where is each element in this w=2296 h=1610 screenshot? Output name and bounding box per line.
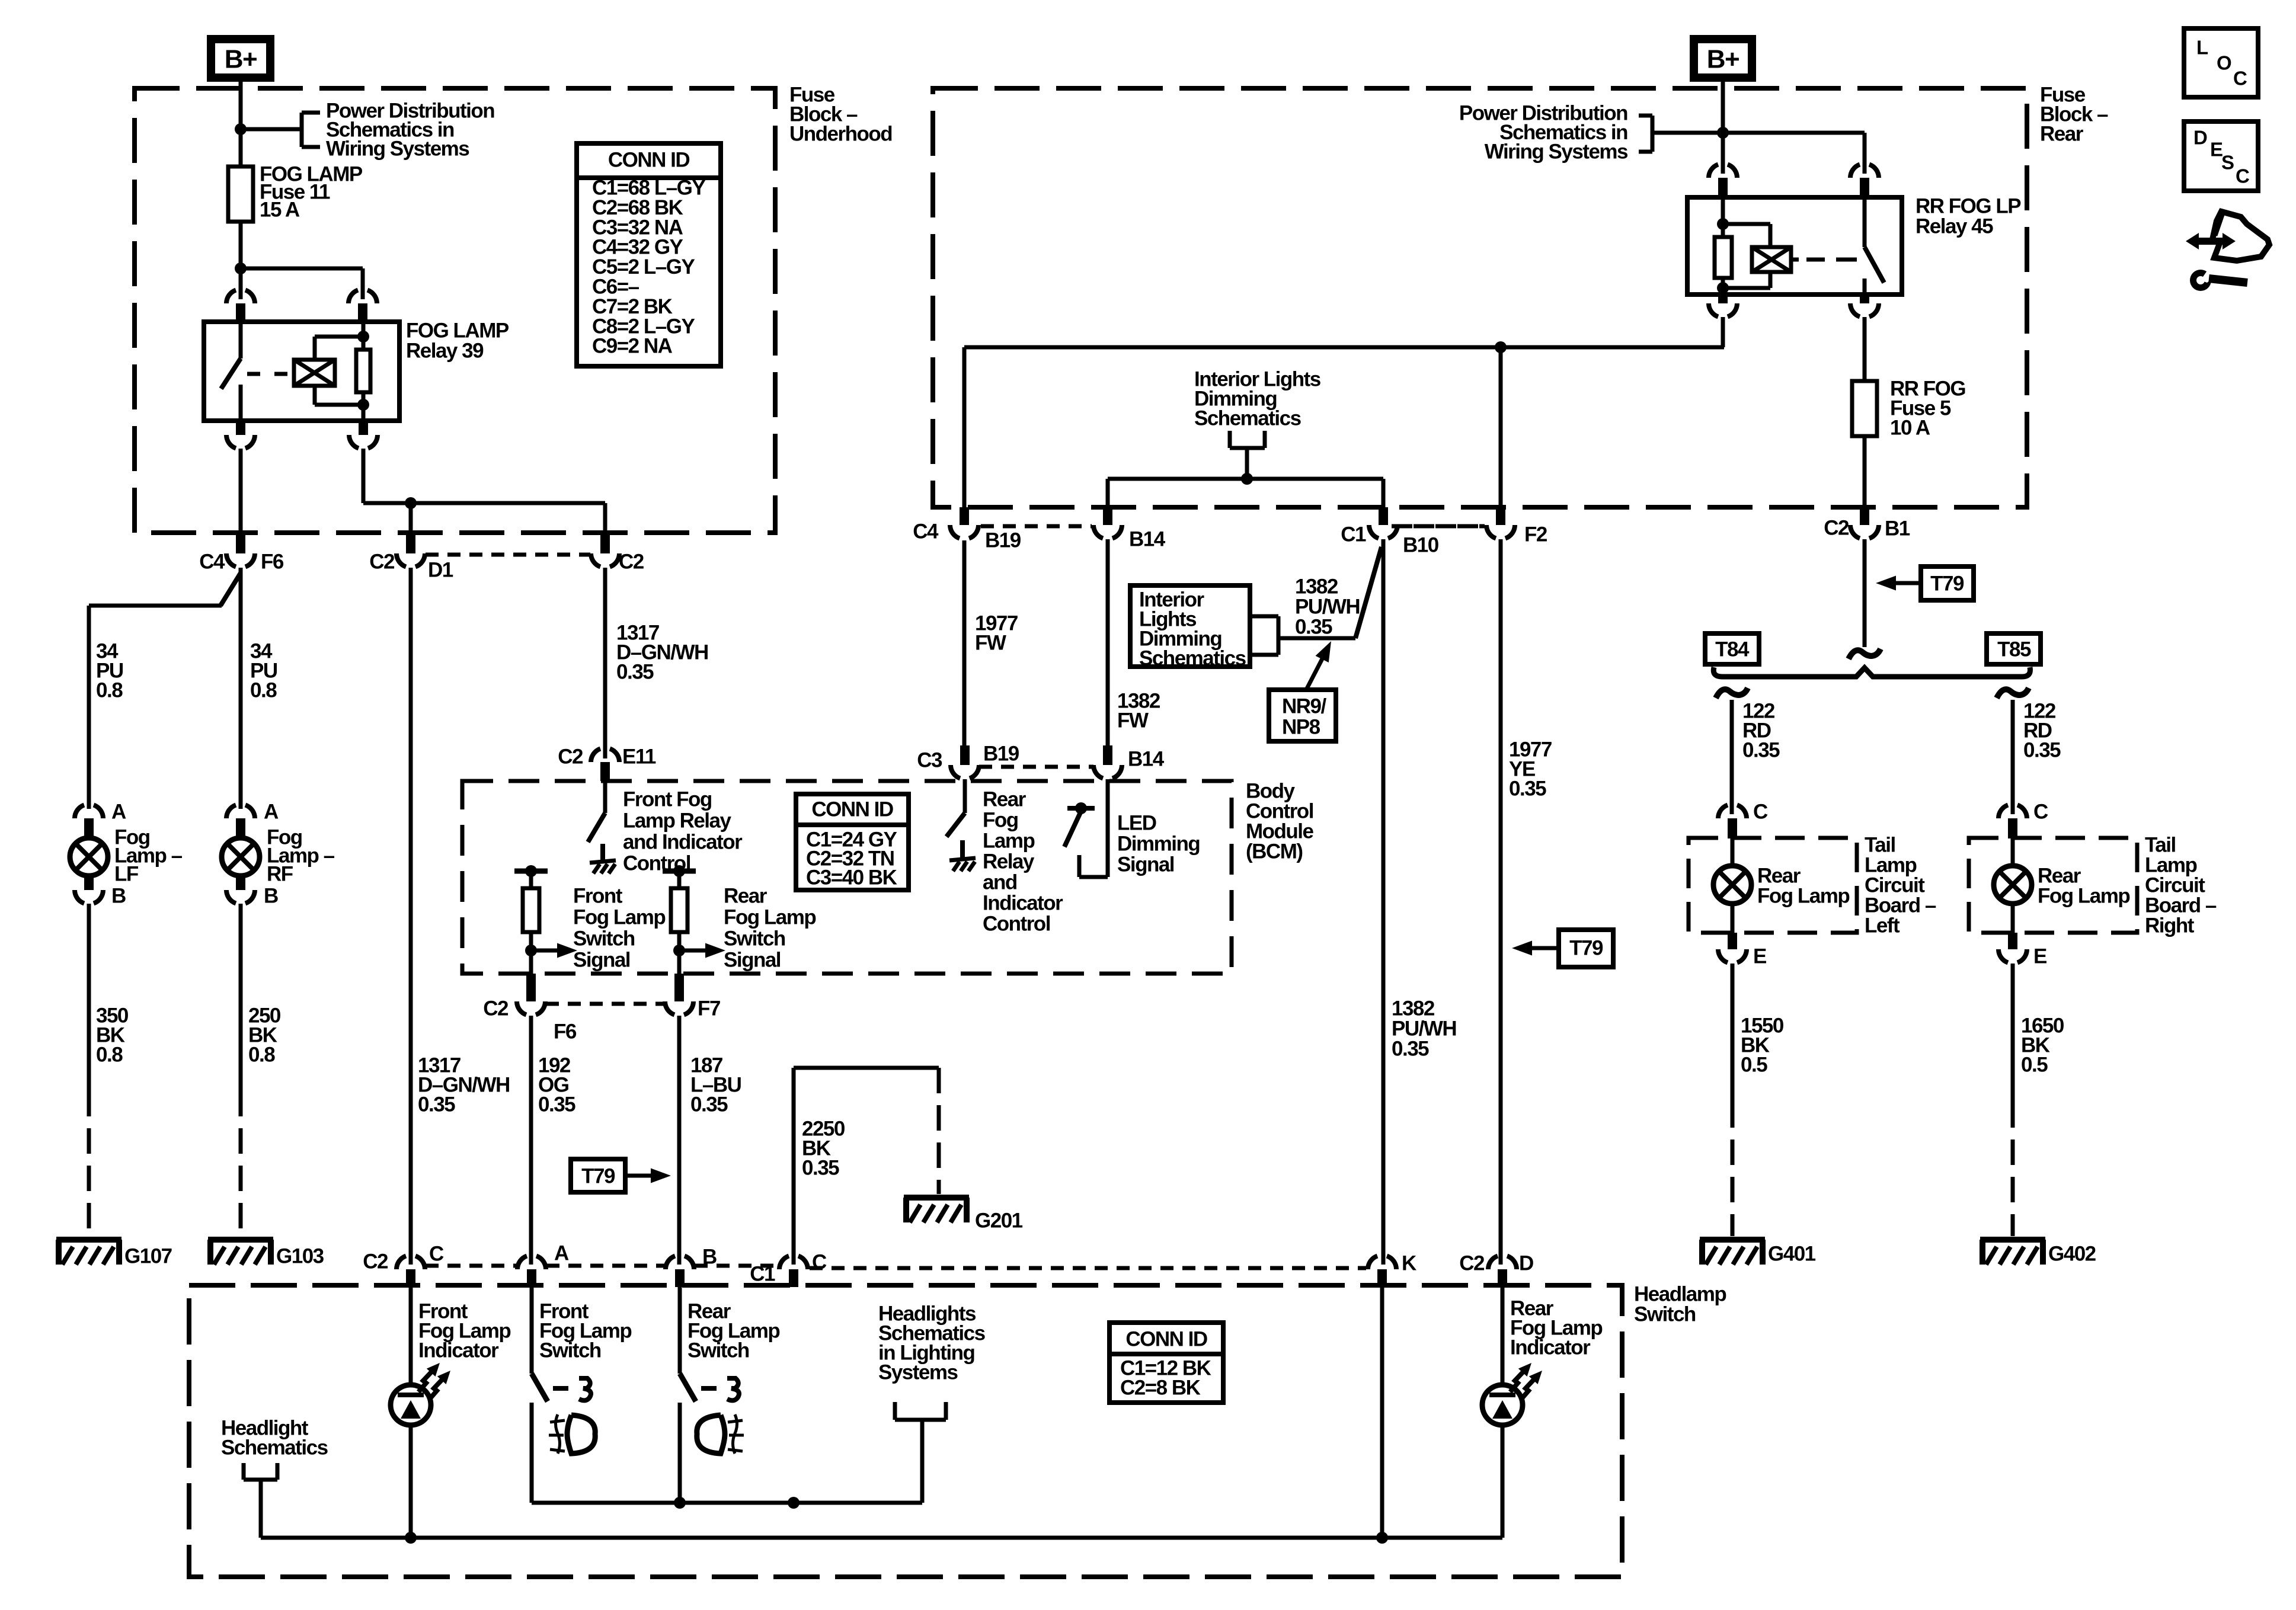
svg-text:Switch: Switch bbox=[1634, 1303, 1696, 1326]
svg-text:0.8: 0.8 bbox=[96, 1044, 123, 1067]
svg-text:NP8: NP8 bbox=[1282, 716, 1320, 739]
svg-text:Indicator: Indicator bbox=[418, 1339, 499, 1362]
svg-text:(BCM): (BCM) bbox=[1246, 840, 1303, 863]
svg-text:F6: F6 bbox=[554, 1020, 577, 1044]
svg-text:Fog: Fog bbox=[983, 809, 1018, 832]
svg-text:Relay 45: Relay 45 bbox=[1916, 215, 1993, 238]
svg-text:L: L bbox=[2196, 37, 2208, 59]
svg-text:C2: C2 bbox=[363, 1250, 388, 1273]
svg-text:Schematics: Schematics bbox=[1139, 647, 1246, 670]
svg-text:B+: B+ bbox=[1707, 45, 1739, 74]
svg-text:K: K bbox=[1402, 1252, 1416, 1275]
svg-text:0.35: 0.35 bbox=[1742, 739, 1780, 762]
svg-text:G401: G401 bbox=[1768, 1243, 1816, 1266]
svg-text:C1: C1 bbox=[750, 1263, 775, 1286]
svg-text:Signal: Signal bbox=[724, 949, 781, 972]
svg-text:F2: F2 bbox=[1524, 523, 1547, 546]
svg-text:G201: G201 bbox=[975, 1209, 1023, 1233]
svg-text:A: A bbox=[554, 1242, 569, 1265]
svg-text:T79: T79 bbox=[1930, 572, 1964, 596]
svg-text:C3=40 BK: C3=40 BK bbox=[806, 866, 897, 889]
svg-text:Right: Right bbox=[2145, 914, 2195, 937]
svg-text:CONN ID: CONN ID bbox=[1125, 1328, 1207, 1351]
svg-text:C2: C2 bbox=[619, 550, 644, 574]
svg-text:0.5: 0.5 bbox=[2021, 1054, 2048, 1077]
svg-text:and: and bbox=[983, 871, 1017, 894]
svg-text:E11: E11 bbox=[622, 745, 656, 769]
svg-text:Fog Lamp: Fog Lamp bbox=[724, 906, 816, 929]
svg-text:A: A bbox=[111, 801, 126, 824]
svg-text:Rear: Rear bbox=[2040, 123, 2084, 146]
svg-text:0.5: 0.5 bbox=[1741, 1054, 1767, 1077]
svg-text:Relay: Relay bbox=[983, 850, 1035, 873]
svg-text:Signal: Signal bbox=[573, 949, 630, 972]
svg-text:Front Fog: Front Fog bbox=[623, 788, 712, 811]
svg-text:10 A: 10 A bbox=[1890, 417, 1930, 440]
svg-text:Indicator: Indicator bbox=[983, 892, 1063, 915]
svg-text:Fog Lamp: Fog Lamp bbox=[1757, 885, 1849, 908]
svg-text:B: B bbox=[702, 1246, 717, 1269]
svg-text:D: D bbox=[2193, 127, 2207, 149]
svg-text:Fog Lamp: Fog Lamp bbox=[573, 906, 665, 929]
svg-text:and Indicator: and Indicator bbox=[623, 831, 743, 854]
svg-text:C: C bbox=[1753, 801, 1768, 824]
svg-text:C2: C2 bbox=[1459, 1252, 1485, 1275]
svg-text:NR9/: NR9/ bbox=[1282, 695, 1327, 718]
svg-text:Front: Front bbox=[573, 885, 623, 908]
svg-text:B10: B10 bbox=[1403, 534, 1439, 557]
svg-text:Switch: Switch bbox=[539, 1339, 601, 1362]
svg-text:G402: G402 bbox=[2048, 1243, 2096, 1266]
svg-text:0.35: 0.35 bbox=[616, 661, 654, 684]
svg-text:Switch: Switch bbox=[573, 927, 635, 950]
svg-text:Wiring Systems: Wiring Systems bbox=[326, 137, 469, 161]
svg-text:D: D bbox=[1519, 1252, 1533, 1275]
svg-text:0.8: 0.8 bbox=[250, 679, 277, 702]
svg-text:T84: T84 bbox=[1715, 638, 1750, 661]
svg-text:C1: C1 bbox=[1341, 523, 1366, 546]
svg-text:F6: F6 bbox=[261, 550, 284, 574]
svg-text:C9=2 NA: C9=2 NA bbox=[592, 335, 673, 358]
svg-text:Fog Lamp: Fog Lamp bbox=[2038, 885, 2129, 908]
svg-text:B19: B19 bbox=[983, 742, 1019, 766]
svg-text:T79: T79 bbox=[1569, 937, 1603, 960]
svg-text:FW: FW bbox=[975, 632, 1006, 655]
svg-text:C3: C3 bbox=[917, 749, 942, 772]
svg-text:0.35: 0.35 bbox=[1392, 1038, 1429, 1061]
svg-text:B1: B1 bbox=[1885, 517, 1910, 540]
svg-text:G103: G103 bbox=[276, 1245, 324, 1268]
svg-text:Indicator: Indicator bbox=[1510, 1336, 1591, 1359]
svg-text:E: E bbox=[1753, 945, 1766, 968]
svg-text:Dimming: Dimming bbox=[1117, 833, 1200, 856]
svg-text:RF: RF bbox=[267, 863, 293, 886]
svg-text:E: E bbox=[2210, 139, 2223, 161]
svg-text:O: O bbox=[2217, 52, 2231, 74]
svg-text:Schematics: Schematics bbox=[1194, 407, 1302, 430]
svg-text:Systems: Systems bbox=[878, 1361, 958, 1384]
svg-text:C2: C2 bbox=[369, 550, 395, 574]
svg-text:B19: B19 bbox=[985, 529, 1021, 552]
svg-text:C4: C4 bbox=[199, 550, 225, 574]
svg-text:B: B bbox=[264, 885, 278, 908]
svg-text:15 A: 15 A bbox=[260, 199, 300, 222]
svg-text:C: C bbox=[429, 1243, 444, 1266]
svg-text:B14: B14 bbox=[1128, 748, 1165, 771]
svg-text:C: C bbox=[812, 1251, 827, 1274]
svg-text:0.35: 0.35 bbox=[418, 1093, 455, 1116]
svg-text:0.8: 0.8 bbox=[96, 679, 123, 702]
svg-text:E: E bbox=[2033, 945, 2046, 968]
svg-text:Signal: Signal bbox=[1117, 853, 1174, 876]
svg-text:Switch: Switch bbox=[687, 1339, 749, 1362]
svg-text:0.35: 0.35 bbox=[690, 1093, 728, 1116]
svg-text:G107: G107 bbox=[124, 1245, 172, 1268]
svg-text:0.35: 0.35 bbox=[538, 1093, 575, 1116]
svg-text:0.35: 0.35 bbox=[2023, 739, 2061, 762]
svg-text:Underhood: Underhood bbox=[789, 123, 892, 146]
svg-text:Relay 39: Relay 39 bbox=[406, 340, 484, 363]
svg-text:C4: C4 bbox=[913, 520, 939, 543]
svg-text:Left: Left bbox=[1865, 914, 1900, 937]
svg-text:C: C bbox=[2233, 68, 2247, 89]
svg-text:C2: C2 bbox=[483, 997, 509, 1020]
svg-text:FW: FW bbox=[1117, 709, 1149, 732]
svg-text:0.35: 0.35 bbox=[1509, 777, 1546, 801]
svg-text:Schematics: Schematics bbox=[221, 1436, 328, 1459]
svg-text:D1: D1 bbox=[428, 559, 453, 582]
svg-text:B14: B14 bbox=[1129, 528, 1166, 551]
svg-text:F7: F7 bbox=[698, 997, 720, 1020]
svg-text:LF: LF bbox=[114, 863, 139, 886]
svg-text:0.35: 0.35 bbox=[802, 1157, 839, 1180]
svg-text:0.8: 0.8 bbox=[248, 1044, 275, 1067]
svg-text:Lamp Relay: Lamp Relay bbox=[623, 809, 731, 833]
svg-text:T79: T79 bbox=[581, 1165, 615, 1188]
svg-text:CONN ID: CONN ID bbox=[608, 149, 690, 172]
svg-text:C: C bbox=[2236, 165, 2249, 187]
svg-text:B: B bbox=[111, 885, 126, 908]
svg-text:Rear: Rear bbox=[724, 885, 768, 908]
svg-text:A: A bbox=[264, 801, 279, 824]
svg-text:Control: Control bbox=[983, 913, 1050, 936]
svg-text:C2: C2 bbox=[558, 745, 583, 769]
svg-text:CONN ID: CONN ID bbox=[811, 798, 893, 821]
svg-text:S: S bbox=[2221, 152, 2234, 174]
svg-text:C: C bbox=[2033, 801, 2048, 824]
svg-text:Lamp: Lamp bbox=[983, 830, 1034, 853]
svg-text:C2=8 BK: C2=8 BK bbox=[1120, 1377, 1201, 1400]
svg-text:LED: LED bbox=[1117, 812, 1156, 835]
svg-text:0.35: 0.35 bbox=[1295, 616, 1332, 639]
svg-text:Switch: Switch bbox=[724, 927, 785, 950]
svg-text:Rear: Rear bbox=[983, 788, 1027, 811]
svg-text:Wiring Systems: Wiring Systems bbox=[1485, 140, 1628, 164]
svg-text:C2: C2 bbox=[1824, 517, 1849, 540]
svg-text:B+: B+ bbox=[225, 45, 257, 74]
svg-text:T85: T85 bbox=[1997, 638, 2031, 661]
